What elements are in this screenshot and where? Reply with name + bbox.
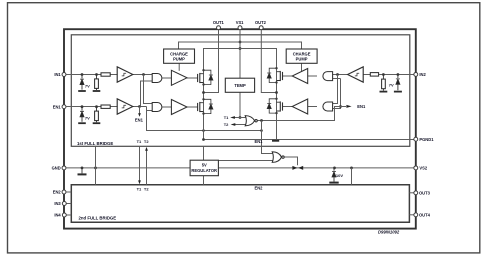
svg-text:T1: T1: [137, 139, 142, 144]
wire T1 inter-bridge: [139, 146, 141, 181]
wire AND1R to DRV1R: [308, 75, 317, 77]
node VS1-VBOOT junction: [239, 41, 242, 44]
svg-text:PUMP: PUMP: [296, 57, 308, 62]
wire EN1 to AND1: [141, 81, 153, 107]
svg-text:IN2: IN2: [419, 72, 426, 77]
pin VS2: [414, 166, 428, 171]
wire EN2 stub: [66, 191, 71, 193]
temp sensor box: [225, 78, 254, 92]
node NOR1 output junction: [260, 119, 263, 122]
bridge 1 box: [71, 35, 410, 147]
wire logic supply feed: [147, 111, 262, 131]
zener D1 7V on IN1: [78, 75, 90, 92]
wire VS1 vertical: [239, 30, 241, 78]
wire DRV2R gate lead: [282, 106, 292, 108]
wire T2 inter-bridge: [146, 150, 148, 185]
pin IN2: [414, 72, 427, 77]
pin IN1: [54, 72, 66, 77]
wire NOR2 bottom input: [218, 160, 272, 162]
and gate A4: [323, 102, 333, 111]
node TEMP T1 junction: [239, 116, 242, 119]
pin IN4: [54, 213, 66, 218]
svg-text:T1: T1: [224, 115, 229, 120]
svg-text:VS1: VS1: [236, 20, 244, 25]
resistor R4 series EN1: [101, 105, 110, 108]
node IN2 zener junction: [397, 73, 400, 76]
arrow T1: [230, 116, 235, 119]
resistor R5 series IN2: [370, 73, 378, 77]
resistor R2 series IN1: [101, 73, 110, 76]
wire right half-bridge chain: [276, 49, 278, 140]
wire regulator top feed: [203, 146, 205, 160]
node Q3 mid: [275, 91, 278, 94]
svg-text:7V: 7V: [85, 116, 90, 121]
wire IN2 input: [363, 74, 414, 76]
ground symbol at GND pin: [78, 168, 87, 175]
wire TEMP to NOR1: [239, 92, 241, 117]
arrow T2 up: [145, 147, 148, 151]
svg-text:PGND1: PGND1: [419, 137, 434, 142]
wire IN1 to AND2: [144, 75, 153, 104]
svg-text:VS2: VS2: [419, 166, 427, 171]
node IN1 zener junction: [81, 73, 84, 76]
svg-text:IN4: IN4: [54, 213, 61, 218]
pin OUT4: [414, 213, 431, 218]
arrow T1 down: [138, 180, 141, 184]
wire IN3 stub: [67, 203, 72, 205]
pin OUT2: [255, 20, 267, 30]
node Q4 source on rail: [272, 140, 279, 142]
wire EN1 down flag: [139, 107, 141, 114]
svg-text:OUT2: OUT2: [255, 20, 267, 25]
svg-text:EN1: EN1: [53, 104, 62, 109]
resistor R6 on IN2: [380, 74, 388, 91]
wire bridge link left: [95, 146, 97, 185]
zener D3 7V on IN2: [389, 74, 402, 91]
wire T2 input: [234, 124, 245, 126]
wire T1 input: [234, 117, 246, 119]
wire Q1 gate lead: [187, 77, 198, 79]
wire AND1 to DRV1: [162, 77, 171, 79]
svg-text:EN1: EN1: [255, 139, 264, 144]
mosfet Q2: [198, 98, 213, 115]
mosfet Q3: [267, 67, 282, 84]
schmitt trigger ST3: [348, 67, 364, 82]
wire IN2 to AND2R: [333, 75, 338, 104]
wire NOR2 output: [284, 157, 297, 165]
wire ST1 output: [132, 74, 152, 76]
node ground stub junction: [81, 167, 84, 170]
node EN1 junction: [138, 105, 141, 108]
node EN1 resistor junction: [95, 105, 98, 108]
node IN1 logic junction: [142, 73, 145, 76]
and gate A1: [152, 74, 162, 83]
resistor R3 on EN1: [93, 107, 101, 124]
node bridge2 vs junction: [350, 167, 353, 170]
svg-text:T2: T2: [144, 187, 149, 192]
wire DRV1R gate lead: [282, 75, 292, 77]
wire OUT2 vertical: [261, 30, 276, 93]
driver DRV4: [292, 99, 308, 114]
wire vs bridge2 feed: [351, 168, 353, 185]
wire EN1 input: [66, 106, 117, 108]
mosfet Q1: [198, 69, 213, 86]
svg-text:2nd FULL BRIDGE: 2nd FULL BRIDGE: [79, 216, 117, 221]
pin OUT1: [213, 20, 225, 30]
svg-text:OUT1: OUT1: [213, 20, 225, 25]
node logic feed / NOR1 branch: [260, 129, 263, 132]
svg-text:IN1: IN1: [54, 72, 61, 77]
svg-text:5V: 5V: [202, 163, 207, 168]
wire OUT4 stub: [409, 214, 413, 216]
svg-text:GND: GND: [52, 166, 61, 171]
node VS1-drain junction: [239, 47, 242, 50]
node Q2 source on rail: [202, 138, 205, 141]
svg-text:10V: 10V: [336, 173, 343, 178]
svg-text:T1: T1: [137, 187, 142, 192]
wire ST3 output: [333, 74, 349, 76]
charge pump CP2: [286, 49, 317, 63]
svg-text:IN3: IN3: [54, 201, 61, 206]
svg-text:EN2: EN2: [53, 190, 62, 195]
node GND junction: [94, 167, 97, 170]
nor gate G1 T1/T2: [245, 116, 257, 126]
resistor R1 on IN1: [93, 75, 101, 92]
svg-text:REGULATOR: REGULATOR: [191, 168, 217, 173]
wire IN4 stub: [67, 214, 72, 216]
node EN1 right junction: [339, 105, 342, 108]
arrow T2: [231, 123, 236, 126]
schmitt trigger ST2: [117, 99, 133, 114]
diode clamp right: [298, 166, 303, 170]
zener D2 7V on EN1: [78, 107, 90, 124]
wire main ground rail left: [66, 167, 190, 169]
pin GND: [52, 166, 66, 171]
pin OUT3: [414, 191, 431, 196]
svg-text:EN1: EN1: [357, 104, 366, 109]
svg-text:T2: T2: [144, 139, 149, 144]
wire left half-bridge chain: [203, 49, 205, 140]
wire OUT1 vertical: [204, 30, 219, 93]
arrow EN1 down: [138, 113, 141, 117]
svg-text:EN2: EN2: [255, 185, 264, 190]
svg-text:OUT4: OUT4: [419, 213, 431, 218]
wire charge-pump supply rail: [179, 42, 302, 49]
svg-text:EN1: EN1: [135, 117, 144, 122]
node EN1 zener junction: [81, 105, 84, 108]
wire NOR1 output to EN1 flag: [257, 107, 346, 121]
regulator box 5V: [190, 160, 218, 176]
wire AND2 to DRV2: [162, 106, 171, 108]
bridge 2 box: [71, 185, 409, 223]
svg-text:7V: 7V: [85, 83, 90, 88]
node Q1 mid: [202, 91, 205, 94]
node IN2 logic junction: [336, 73, 339, 76]
node IN2 resistor junction: [382, 73, 385, 76]
driver DRV1: [171, 70, 187, 85]
wire AND2R to DRV2R: [308, 106, 317, 108]
wire EN1 to AND1R: [333, 79, 341, 109]
svg-text:PUMP: PUMP: [173, 57, 185, 62]
mosfet Q4: [267, 98, 282, 115]
and gate A2: [152, 103, 162, 112]
diode clamp left: [292, 166, 297, 170]
wire NOR1 out to NOR2 input: [262, 121, 273, 154]
node logic feed / Q2 source crossing: [202, 129, 205, 132]
driver DRV2: [171, 100, 187, 115]
wire IN1 input: [66, 74, 117, 76]
pin PGND1: [414, 137, 434, 142]
pin VS1: [236, 20, 244, 30]
nor gate G2: [272, 152, 284, 163]
svg-text:T2: T2: [224, 122, 229, 127]
charge pump CP1: [164, 49, 195, 63]
driver DRV3: [292, 69, 308, 84]
svg-text:OUT3: OUT3: [419, 191, 431, 196]
node IN1 resistor junction: [95, 73, 98, 76]
svg-text:D99IN1092: D99IN1092: [378, 230, 400, 235]
svg-text:CHARGE: CHARGE: [170, 51, 188, 56]
pin EN2: [53, 190, 66, 195]
wire ST2 output: [132, 106, 147, 108]
wire PGND rail: [204, 139, 414, 141]
and gate A3: [323, 72, 333, 81]
wire CP2 to DRV1R: [301, 63, 303, 71]
wire OUT3 stub: [409, 192, 413, 194]
svg-text:1st FULL BRIDGE: 1st FULL BRIDGE: [77, 141, 113, 146]
svg-text:CHARGE: CHARGE: [293, 51, 311, 56]
node zener10 junction: [333, 167, 336, 170]
wire main ground rail right: [218, 167, 413, 169]
wire CP1 to DRV1: [178, 63, 180, 71]
wire Q2 gate lead: [187, 106, 198, 108]
wire regulator bottom feed: [203, 176, 205, 185]
schmitt trigger ST1: [117, 67, 133, 82]
pin IN3: [54, 201, 66, 206]
zener D4 10V: [329, 168, 343, 183]
wire high-side drain rail: [204, 49, 277, 71]
svg-text:TEMP: TEMP: [234, 83, 246, 88]
pin EN1: [53, 104, 66, 109]
svg-text:7V: 7V: [389, 82, 394, 87]
arrow EN1 right flag: [346, 105, 351, 108]
IC outer boundary box: [64, 29, 416, 228]
wire EN1 to AND2: [147, 107, 153, 111]
